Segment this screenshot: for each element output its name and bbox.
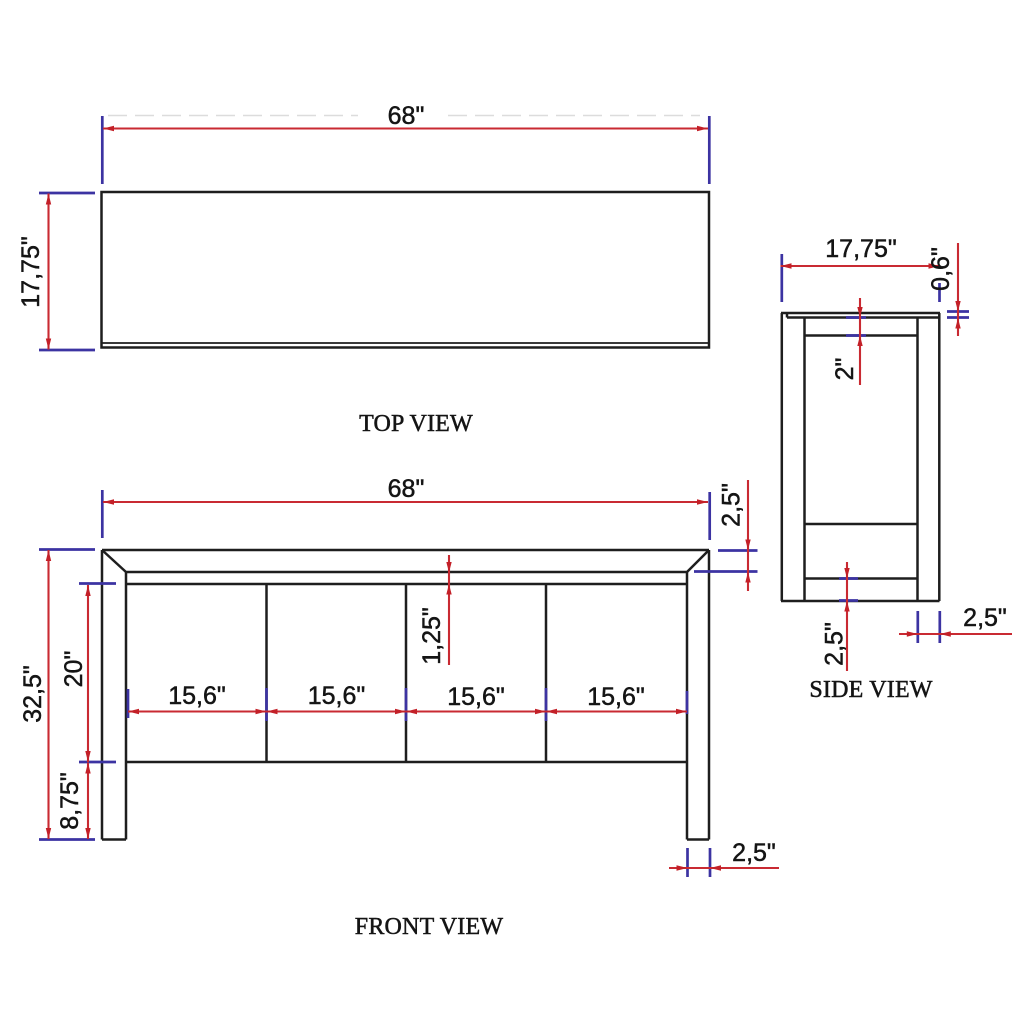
svg-text:68": 68" <box>388 475 425 503</box>
dimension 68" top view width <box>102 102 709 184</box>
side view top rail bottom edge <box>805 334 918 337</box>
svg-text:1,25": 1,25" <box>418 607 446 665</box>
svg-text:0,6": 0,6" <box>927 247 955 291</box>
dimension 15,6" door 1 width <box>128 682 267 721</box>
dimension 1,25" top rail height <box>418 555 452 665</box>
dimension 0,6" top slab thickness <box>927 243 969 336</box>
front view left leg <box>102 550 126 840</box>
svg-text:15,6": 15,6" <box>308 682 366 710</box>
svg-text:8,75": 8,75" <box>56 772 84 830</box>
front view door divider 1 <box>265 584 268 762</box>
svg-text:2,5": 2,5" <box>732 839 776 867</box>
side view top panel <box>781 313 940 318</box>
dimension 68" front view width <box>102 475 709 540</box>
front view door divider 3 <box>545 584 548 762</box>
svg-text:68": 68" <box>388 102 425 130</box>
svg-text:17,75": 17,75" <box>17 236 45 307</box>
faint dashed line <box>108 115 700 117</box>
svg-text:15,6": 15,6" <box>587 683 645 711</box>
svg-text:TOP VIEW: TOP VIEW <box>359 411 473 437</box>
dimension 2,5" top panel thickness <box>694 480 758 591</box>
side view bottom edge <box>781 600 940 603</box>
side view back leg <box>918 313 940 601</box>
front view door row top edge <box>126 583 687 586</box>
svg-text:2,5": 2,5" <box>718 483 746 527</box>
dimension 2,5" side leg width <box>899 604 1012 643</box>
front view right leg <box>687 550 709 840</box>
dimension 15,6" door 3 width <box>406 683 546 721</box>
svg-text:15,6": 15,6" <box>168 682 226 710</box>
dimension 17,75" side view depth <box>781 235 940 302</box>
top view front edge line <box>102 342 708 344</box>
dimension 20" door height <box>60 584 116 763</box>
svg-text:2,5": 2,5" <box>963 604 1007 632</box>
svg-text:17,75": 17,75" <box>825 235 896 263</box>
dimension 32,5" overall height <box>19 550 95 840</box>
svg-text:SIDE VIEW: SIDE VIEW <box>809 677 932 703</box>
dimension 15,6" door 4 width <box>546 683 687 714</box>
svg-text:20": 20" <box>60 651 88 688</box>
svg-text:15,6": 15,6" <box>447 683 505 711</box>
dimension 2" top rail height <box>831 298 866 385</box>
svg-text:32,5": 32,5" <box>19 665 47 723</box>
dimension 2,5" bottom rail height <box>821 562 859 671</box>
side view bottom rail top edge <box>805 577 918 580</box>
svg-text:2": 2" <box>831 358 859 381</box>
side view front leg <box>782 313 805 601</box>
side view shelf line <box>805 523 918 526</box>
svg-text:2,5": 2,5" <box>821 622 849 666</box>
svg-text:FRONT VIEW: FRONT VIEW <box>355 914 504 940</box>
dimension 2,5" leg width bottom <box>669 839 779 877</box>
front view door divider 2 <box>405 584 408 762</box>
dimension 8,75" leg height <box>56 763 91 840</box>
front view top panel <box>102 550 709 572</box>
dimension 15,6" door 2 width <box>267 682 407 721</box>
top view outline <box>102 192 710 348</box>
dimension 17,75" top view depth <box>17 193 95 350</box>
front view door row bottom edge <box>126 761 687 764</box>
